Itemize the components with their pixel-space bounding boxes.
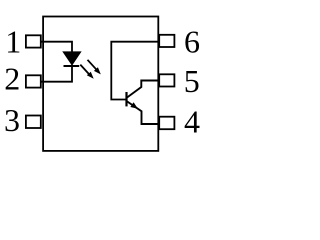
package outline U1 bbox=[43, 17, 158, 151]
transistor Q1 collector bbox=[127, 81, 160, 98]
LED D1 triangle bbox=[63, 52, 80, 65]
transistor Q1 emitter arrowhead bbox=[130, 102, 138, 109]
svg-text:2: 2 bbox=[4, 61, 20, 97]
pin 5 pad bbox=[159, 74, 174, 86]
svg-text:6: 6 bbox=[184, 24, 200, 60]
svg-text:3: 3 bbox=[4, 102, 20, 138]
pin 6 pad bbox=[159, 35, 174, 47]
transistor Q1 base bar bbox=[125, 92, 127, 106]
pin 2 pad bbox=[26, 75, 41, 87]
wire: LED cathode to pin2 bbox=[41, 65, 72, 82]
pin 4 pad bbox=[159, 117, 174, 130]
pin 1 pad bbox=[26, 35, 41, 47]
light arrow 2 bbox=[80, 65, 93, 79]
wire: pin1 to LED anode bbox=[41, 42, 72, 52]
LED D1 cathode bar bbox=[64, 65, 80, 67]
light arrow 1 bbox=[88, 60, 101, 75]
svg-text:5: 5 bbox=[184, 63, 200, 99]
svg-text:4: 4 bbox=[184, 104, 200, 140]
transistor Q1 emitter bbox=[127, 101, 160, 124]
wire: pin6 to base bbox=[111, 42, 159, 100]
svg-text:1: 1 bbox=[5, 24, 21, 60]
pin 3 pad bbox=[26, 116, 41, 129]
